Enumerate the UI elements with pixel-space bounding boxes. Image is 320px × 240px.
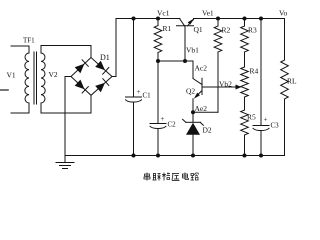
svg-text:R1: R1 xyxy=(163,24,172,33)
svg-text:D2: D2 xyxy=(203,126,212,135)
svg-text:Ve1: Ve1 xyxy=(202,9,214,18)
svg-text:R4: R4 xyxy=(250,67,259,76)
svg-text:+: + xyxy=(161,115,165,123)
svg-text:+: + xyxy=(137,88,141,96)
svg-text:Vb2: Vb2 xyxy=(219,79,232,88)
svg-text:C1: C1 xyxy=(143,92,152,100)
svg-text:Vb1: Vb1 xyxy=(186,45,199,54)
svg-text:+: + xyxy=(264,116,268,124)
svg-text:RL: RL xyxy=(287,77,297,86)
svg-text:R3: R3 xyxy=(248,26,257,35)
svg-text:R2: R2 xyxy=(222,26,231,35)
svg-text:Ae2: Ae2 xyxy=(195,104,208,113)
svg-text:TF1: TF1 xyxy=(23,37,35,45)
svg-text:Q1: Q1 xyxy=(194,25,203,34)
svg-text:C3: C3 xyxy=(271,122,280,130)
svg-text:Ac2: Ac2 xyxy=(195,64,208,73)
svg-text:V1: V1 xyxy=(7,71,16,80)
svg-text:R5: R5 xyxy=(247,113,256,122)
svg-text:Vo: Vo xyxy=(279,9,287,18)
svg-text:D1: D1 xyxy=(100,53,110,62)
svg-text:V2: V2 xyxy=(49,70,58,79)
svg-text:C2: C2 xyxy=(168,121,177,129)
svg-text:Vc1: Vc1 xyxy=(157,9,170,18)
svg-text:Q2: Q2 xyxy=(186,86,195,95)
